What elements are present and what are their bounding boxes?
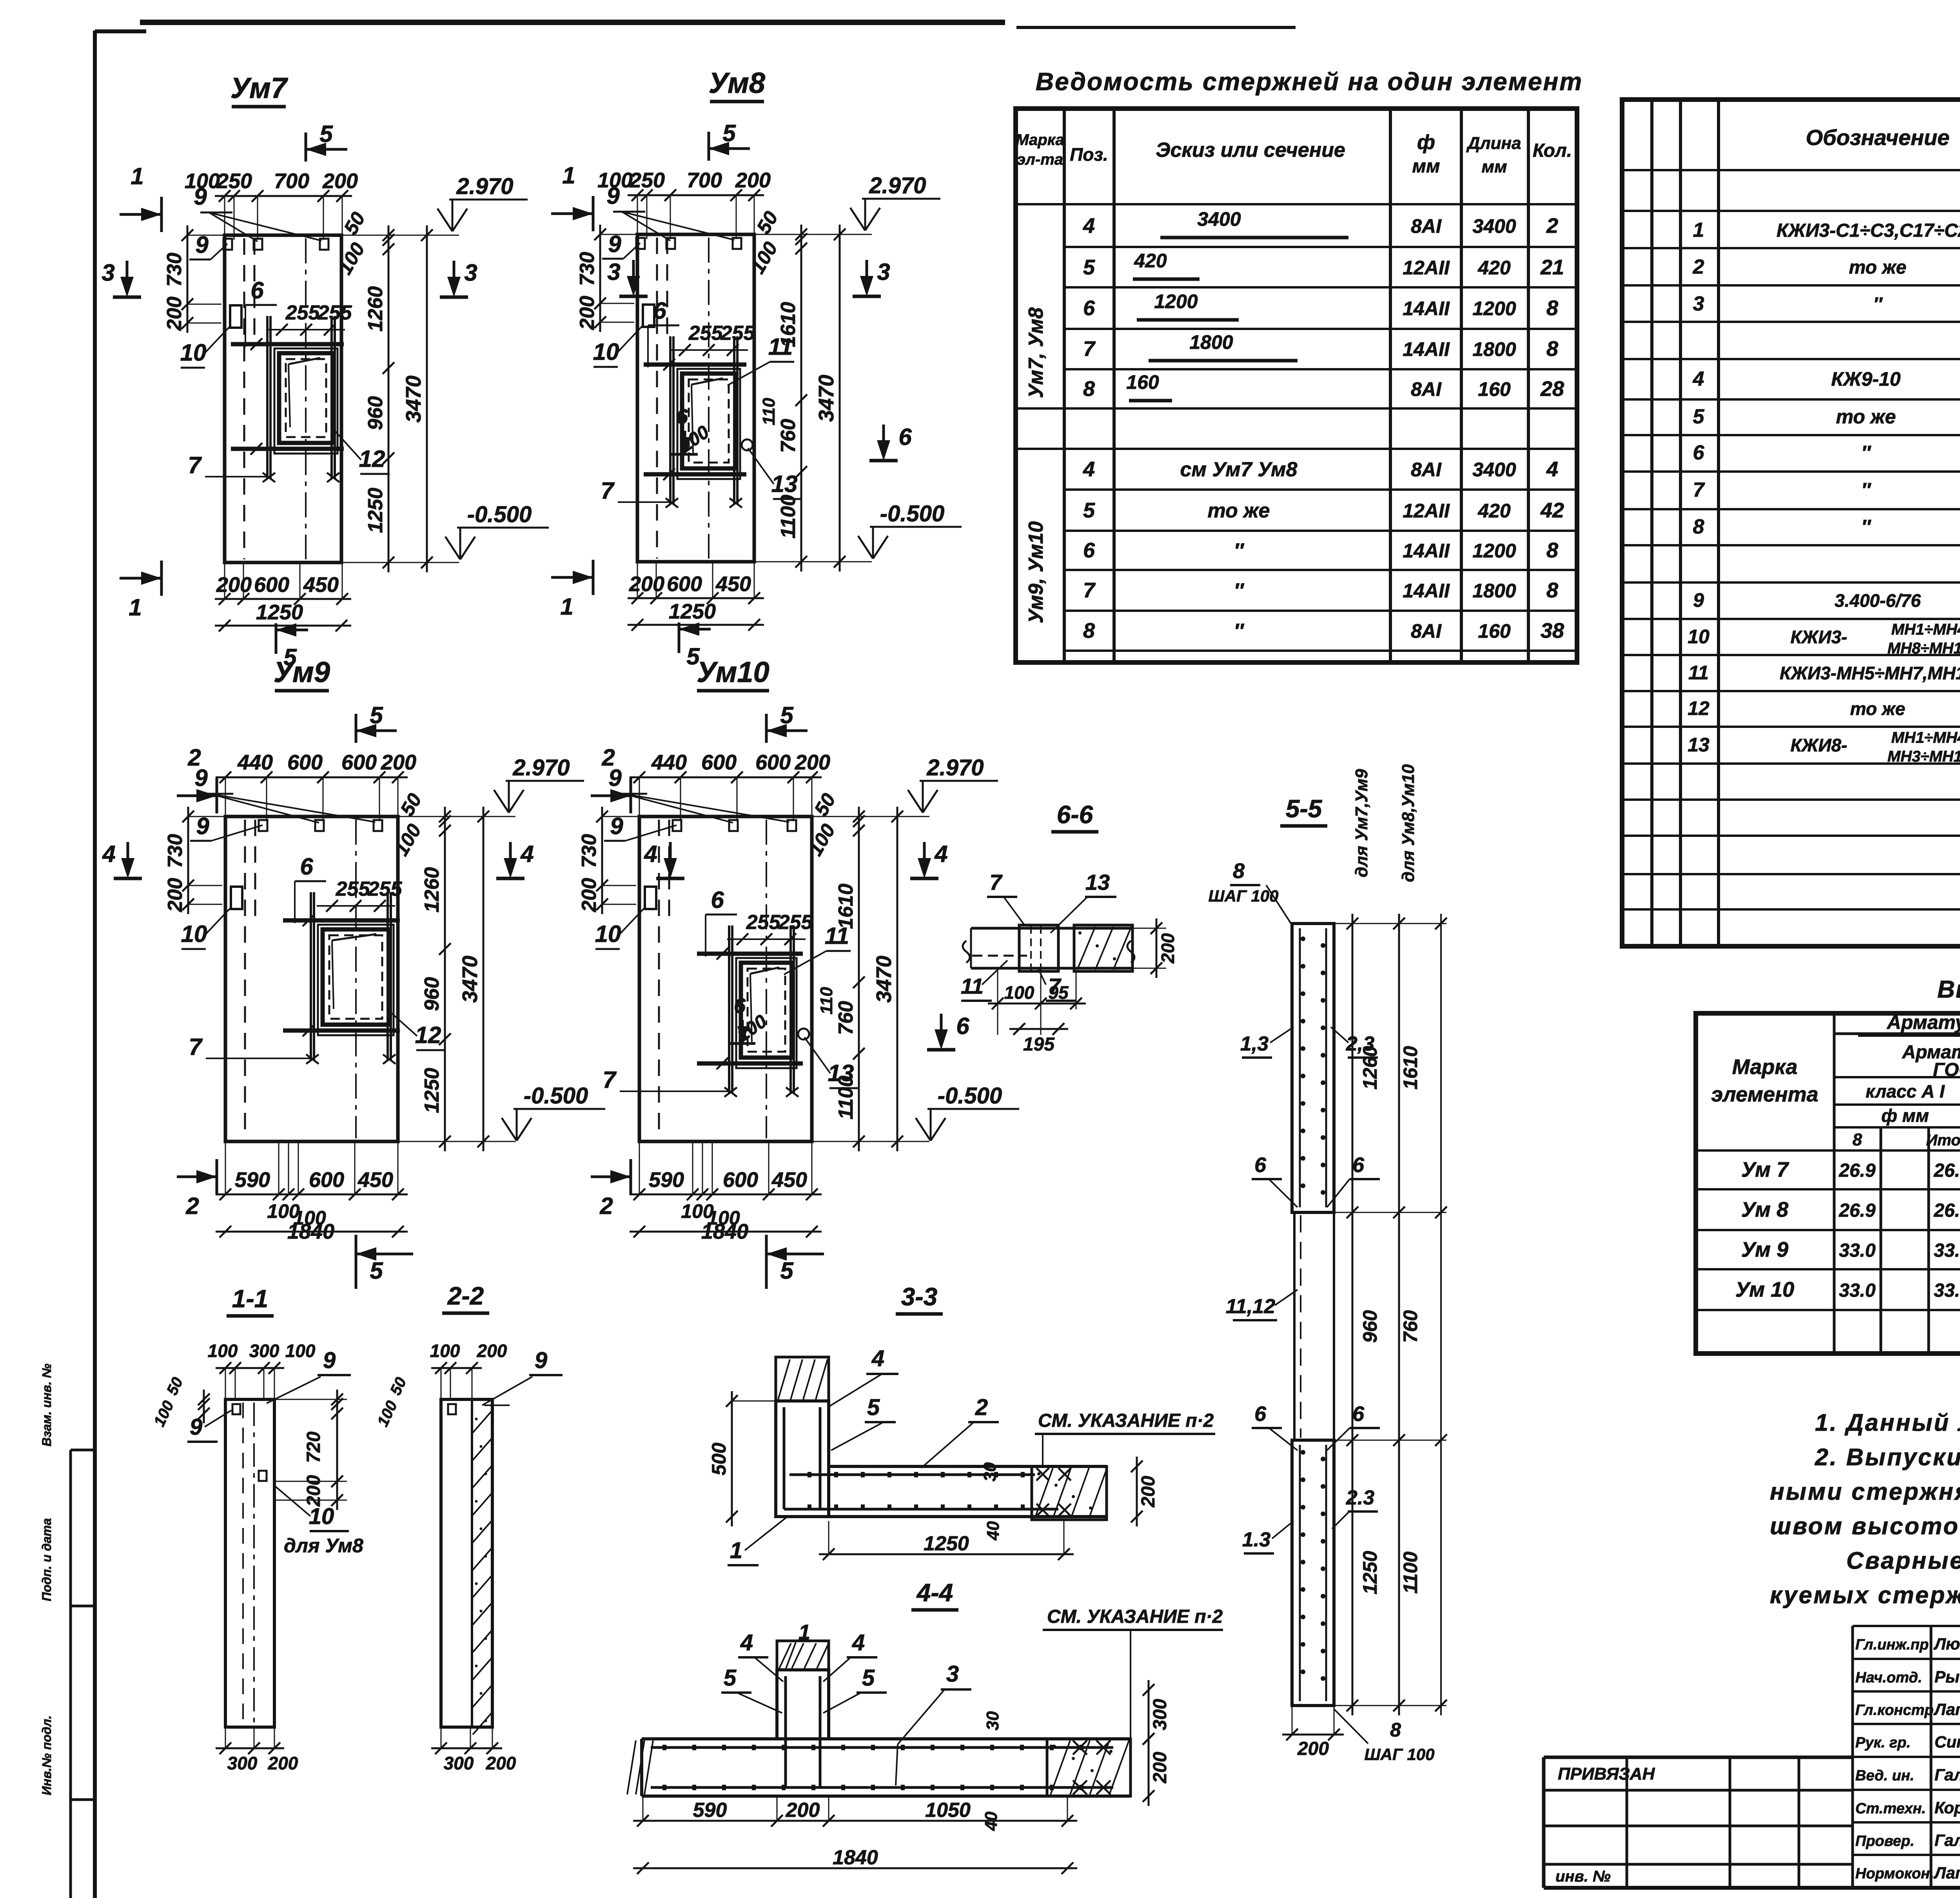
svg-text:3: 3 xyxy=(1693,292,1704,315)
section 3-3 dims xyxy=(731,1391,733,1526)
svg-text:600: 600 xyxy=(701,751,737,774)
svg-text:13: 13 xyxy=(1085,870,1110,895)
svg-text:то же: то же xyxy=(1208,499,1270,522)
svg-text:3: 3 xyxy=(607,259,620,285)
section 5-5 right dim chains xyxy=(1352,914,1354,1715)
panel Ум9 section mark 4 right xyxy=(509,842,512,873)
svg-text:мм: мм xyxy=(1412,156,1440,177)
section 6-6 squiggle cut marks xyxy=(963,941,970,963)
svg-text:30: 30 xyxy=(983,1711,1002,1730)
svg-text:6: 6 xyxy=(734,994,746,1018)
svg-text:7: 7 xyxy=(1083,579,1096,602)
section 1-1 bottom dims xyxy=(216,1747,284,1749)
svg-text:255: 255 xyxy=(746,911,781,934)
svg-text:1800: 1800 xyxy=(1189,331,1233,353)
panel Ум10 left section mark 2 top xyxy=(591,795,631,797)
svg-text:195: 195 xyxy=(1023,1034,1055,1055)
section 1-1 plates xyxy=(232,1404,240,1414)
svg-text:590: 590 xyxy=(235,1168,270,1192)
svg-text:1250: 1250 xyxy=(421,1068,443,1113)
svg-text:450: 450 xyxy=(715,572,751,596)
svg-text:2: 2 xyxy=(1546,214,1558,238)
svg-text:450: 450 xyxy=(303,573,339,597)
svg-text:13: 13 xyxy=(1688,734,1710,756)
svg-text:″: ″ xyxy=(1861,516,1871,538)
svg-text:для Ум7,Ум9: для Ум7,Ум9 xyxy=(1352,769,1371,877)
svg-text:8: 8 xyxy=(1853,1130,1862,1149)
panel Ум9 bottom left section mark xyxy=(177,1176,217,1178)
svg-text:10: 10 xyxy=(309,1504,334,1529)
svg-text:26.9: 26.9 xyxy=(1933,1200,1960,1221)
vedomost table grid xyxy=(1016,109,1577,662)
svg-text:МН8÷МН11: МН8÷МН11 xyxy=(1887,640,1960,657)
panel Ум7 left dimension chain xyxy=(187,225,189,333)
panel Ум9 top dimension chain xyxy=(216,777,408,778)
svg-text:300: 300 xyxy=(1150,1699,1171,1730)
svg-text:6: 6 xyxy=(250,277,264,303)
svg-text:элемента: элемента xyxy=(1711,1083,1818,1106)
svg-text:МН1÷МН4: МН1÷МН4 xyxy=(1891,729,1960,746)
svg-text:960: 960 xyxy=(1359,1310,1381,1343)
svg-text:42: 42 xyxy=(1540,499,1564,522)
svg-text:6: 6 xyxy=(1254,1402,1267,1426)
svg-text:6: 6 xyxy=(676,405,688,428)
svg-text:2. Выпуски арматуры из ст: 2. Выпуски арматуры из стеновых панелей … xyxy=(1815,1444,1960,1470)
svg-text:″: ″ xyxy=(1861,479,1871,501)
svg-text:Гл.констр: Гл.констр xyxy=(1855,1702,1934,1718)
svg-text:8: 8 xyxy=(1083,619,1095,642)
svg-text:то же: то же xyxy=(1836,406,1896,428)
svg-text:2: 2 xyxy=(185,1193,199,1219)
left margin boxes xyxy=(69,1450,72,1898)
page frame left border xyxy=(93,31,97,1898)
panel Ум10 rebar 7 horizontal bars xyxy=(697,952,803,956)
svg-text:255: 255 xyxy=(336,878,370,900)
svg-text:3.400-6/76: 3.400-6/76 xyxy=(1835,590,1921,611)
svg-text:8: 8 xyxy=(1546,296,1558,320)
svg-text:1: 1 xyxy=(129,594,142,621)
section 5-5 top segment xyxy=(1292,924,1334,1212)
svg-text:9: 9 xyxy=(535,1348,547,1373)
svg-text:110: 110 xyxy=(759,397,779,425)
panel Ум9 left dimension chain xyxy=(187,807,189,914)
svg-text:1050: 1050 xyxy=(925,1799,971,1822)
svg-text:Ум 7: Ум 7 xyxy=(1741,1158,1789,1181)
svg-text:5: 5 xyxy=(867,1395,880,1420)
section 4-4 slab xyxy=(642,1737,1131,1740)
svg-text:9: 9 xyxy=(323,1348,336,1373)
panel Ум7 bottom section mark 5 xyxy=(276,629,308,631)
section 5-5 bottom segment xyxy=(1292,1440,1334,1706)
panel Ум8 top dimension chain xyxy=(628,194,764,196)
section 1-1 column xyxy=(225,1399,274,1727)
panel Ум9 rebar 6 vertical bars xyxy=(310,892,312,1061)
svg-text:300: 300 xyxy=(444,1753,474,1773)
svg-text:Ведомость стержней на один: Ведомость стержней на один элемент xyxy=(1036,67,1583,96)
panel Ум8 bottom section mark 5 xyxy=(679,628,711,631)
panel Ум7 bottom dimension chains xyxy=(215,598,351,600)
panel Ум9 right dimension chains xyxy=(444,807,446,1151)
svg-text:для Ум8,Ум10: для Ум8,Ум10 xyxy=(1399,764,1418,882)
svg-text:4: 4 xyxy=(520,841,534,867)
svg-text:Марка: Марка xyxy=(1016,131,1064,149)
svg-text:5: 5 xyxy=(1083,256,1095,279)
svg-text:600: 600 xyxy=(755,751,791,774)
svg-text:7: 7 xyxy=(1693,479,1705,501)
svg-text:6: 6 xyxy=(653,298,666,324)
svg-text:3400: 3400 xyxy=(1472,215,1516,237)
svg-text:КЖИ3-: КЖИ3- xyxy=(1791,627,1847,647)
svg-text:10: 10 xyxy=(1688,626,1710,648)
svg-text:КЖИ8-: КЖИ8- xyxy=(1791,735,1847,755)
svg-text:2: 2 xyxy=(601,744,615,771)
svg-text:Ум 8: Ум 8 xyxy=(1741,1198,1788,1221)
svg-text:200: 200 xyxy=(629,572,664,596)
svg-text:Синельникова: Синельникова xyxy=(1935,1733,1960,1751)
svg-text:2.970: 2.970 xyxy=(512,755,570,780)
svg-text:28: 28 xyxy=(1540,377,1564,401)
svg-text:Любавин: Любавин xyxy=(1933,1635,1960,1653)
svg-text:12АII: 12АII xyxy=(1403,500,1450,522)
svg-text:1200: 1200 xyxy=(1472,298,1516,319)
svg-text:600: 600 xyxy=(309,1168,344,1192)
svg-text:ШАГ 100: ШАГ 100 xyxy=(1365,1745,1435,1764)
svg-text:590: 590 xyxy=(649,1168,684,1192)
svg-text:255: 255 xyxy=(368,878,403,900)
svg-text:Вед. ин.: Вед. ин. xyxy=(1855,1767,1914,1784)
svg-text:Нормокон.: Нормокон. xyxy=(1855,1865,1934,1882)
section 4-4 stem xyxy=(777,1670,829,1739)
svg-text:2: 2 xyxy=(599,1193,613,1219)
svg-text:2.970: 2.970 xyxy=(456,174,513,199)
panel Ум10 right dimension chains xyxy=(858,807,860,1151)
svg-text:255: 255 xyxy=(285,301,320,324)
svg-text:14АII: 14АII xyxy=(1403,540,1450,562)
svg-text:1250: 1250 xyxy=(256,601,303,624)
svg-text:730: 730 xyxy=(578,834,601,868)
title block left extension privyazan xyxy=(1544,1756,1853,1759)
svg-text:11: 11 xyxy=(1688,662,1709,684)
panel Ум8 section mark 3 right xyxy=(866,260,868,291)
svg-text:-0.500: -0.500 xyxy=(524,1083,588,1109)
panel Ум9 embedded plates 9 top xyxy=(259,820,267,831)
svg-text:ГОСТ 5781-75: ГОСТ 5781-75 xyxy=(1933,1060,1960,1080)
vyborka table outline xyxy=(1696,1013,1960,1354)
svg-text:мм: мм xyxy=(1481,157,1507,176)
svg-text:100: 100 xyxy=(1004,982,1034,1003)
svg-text:8АI: 8АI xyxy=(1411,459,1442,481)
panel Ум7 section mark 3 left xyxy=(126,261,129,292)
svg-text:12: 12 xyxy=(415,1022,441,1048)
svg-text:эл-та: эл-та xyxy=(1017,151,1063,168)
svg-text:Ум7, Ум8: Ум7, Ум8 xyxy=(1025,307,1047,398)
svg-text:200: 200 xyxy=(477,1341,507,1361)
svg-text:1: 1 xyxy=(1693,219,1704,241)
svg-text:7: 7 xyxy=(188,452,202,478)
svg-text:26.9: 26.9 xyxy=(1838,1160,1876,1181)
svg-text:Ум7: Ум7 xyxy=(230,72,289,104)
svg-text:Гальперина: Гальперина xyxy=(1935,1831,1960,1849)
svg-text:1: 1 xyxy=(131,163,143,189)
svg-text:5: 5 xyxy=(370,1257,383,1284)
panel Ум10 outline xyxy=(639,817,812,1141)
svg-text:1: 1 xyxy=(560,593,573,620)
vyborka table columns xyxy=(1833,1013,1836,1354)
svg-text:6: 6 xyxy=(1352,1153,1365,1177)
svg-text:200: 200 xyxy=(735,169,771,192)
svg-text:3470: 3470 xyxy=(402,376,425,423)
svg-text:700: 700 xyxy=(274,169,309,193)
svg-text:Ум9: Ум9 xyxy=(274,656,330,688)
section 2-2 insulation hatch xyxy=(473,1411,492,1433)
svg-text:5: 5 xyxy=(1693,405,1705,428)
svg-text:3470: 3470 xyxy=(872,956,896,1003)
svg-text:33.0: 33.0 xyxy=(1839,1280,1876,1301)
panel Ум7 dashed lines xyxy=(243,238,245,559)
title block signature table xyxy=(1853,1625,1960,1627)
svg-text:МН3÷МН11: МН3÷МН11 xyxy=(1887,748,1960,765)
svg-text:Ум9, Ум10: Ум9, Ум10 xyxy=(1025,521,1047,624)
panel Ум8 bottom dimension chains xyxy=(628,597,764,599)
section 2-2 column xyxy=(441,1399,492,1727)
svg-text:1250: 1250 xyxy=(924,1532,969,1555)
panel Ум8 outline xyxy=(637,234,754,562)
section 2-2 bottom dims xyxy=(431,1747,502,1749)
svg-text:255: 255 xyxy=(720,322,755,345)
svg-text:6: 6 xyxy=(300,853,313,880)
svg-text:6: 6 xyxy=(956,1013,969,1039)
panel Ум8 section mark 6 right xyxy=(882,425,885,456)
svg-text:Инв.№ подл.: Инв.№ подл. xyxy=(40,1715,54,1795)
svg-text:-0.500: -0.500 xyxy=(880,501,944,526)
svg-text:4: 4 xyxy=(102,841,115,867)
svg-text:200: 200 xyxy=(1150,1752,1171,1784)
panel Ум8 rebar 6 vertical bars xyxy=(669,336,671,504)
svg-text:4: 4 xyxy=(1546,457,1558,481)
svg-text:1,3: 1,3 xyxy=(1240,1032,1269,1055)
svg-text:33.0: 33.0 xyxy=(1934,1240,1960,1261)
panel Ум7 top dimension chain xyxy=(215,195,352,197)
svg-text:2-2: 2-2 xyxy=(447,1282,484,1310)
page frame bottom line under title block xyxy=(1544,1886,1960,1890)
svg-text:Корышева: Корышева xyxy=(1935,1798,1960,1817)
svg-text:730: 730 xyxy=(576,252,599,286)
svg-text:11,12: 11,12 xyxy=(1226,1295,1275,1318)
section 3-3 rebar xyxy=(783,1407,786,1509)
panel Ум9 rebar 7 horizontal bars xyxy=(283,918,400,923)
svg-text:2.3: 2.3 xyxy=(1346,1486,1374,1509)
panel Ум8 window opening xyxy=(677,369,740,479)
svg-text:200: 200 xyxy=(486,1753,516,1773)
svg-text:8: 8 xyxy=(1693,515,1704,538)
svg-text:7: 7 xyxy=(601,477,615,504)
svg-text:Сварные швы должны обесп: Сварные швы должны обеспечивать равнопро… xyxy=(1846,1547,1960,1574)
panel Ум9 bottom dimension chains xyxy=(216,1194,408,1196)
panel Ум9 bottom section mark 5 xyxy=(356,1253,413,1256)
svg-text:″: ″ xyxy=(1234,620,1245,642)
svg-text:класс А I: класс А I xyxy=(1866,1081,1945,1101)
svg-text:1250: 1250 xyxy=(1359,1551,1381,1594)
svg-text:200: 200 xyxy=(795,751,830,774)
svg-text:700: 700 xyxy=(687,169,722,192)
svg-text:6: 6 xyxy=(1352,1402,1365,1426)
svg-text:Подп. и дата: Подп. и дата xyxy=(40,1518,54,1601)
section 5-5 middle segment xyxy=(1294,1212,1334,1440)
svg-text:200: 200 xyxy=(578,878,601,913)
panel Ум8 left dimension chain xyxy=(599,225,601,332)
svg-text:160: 160 xyxy=(1126,371,1159,393)
svg-text:200: 200 xyxy=(1297,1738,1329,1759)
svg-text:10: 10 xyxy=(595,921,621,947)
svg-text:1250: 1250 xyxy=(669,600,716,623)
svg-text:5: 5 xyxy=(862,1665,875,1691)
svg-text:200: 200 xyxy=(303,1475,324,1507)
svg-text:Ум 9: Ум 9 xyxy=(1741,1238,1788,1261)
svg-text:Ум10: Ум10 xyxy=(697,656,769,688)
svg-text:1610: 1610 xyxy=(835,884,857,929)
svg-text:960: 960 xyxy=(364,396,387,430)
panel Ум9 left section mark 2 top xyxy=(177,795,217,797)
svg-text:4: 4 xyxy=(871,1346,884,1371)
svg-text:7: 7 xyxy=(189,1034,203,1060)
svg-text:инв. №: инв. № xyxy=(1555,1868,1611,1885)
svg-text:6-6: 6-6 xyxy=(1057,800,1093,829)
svg-text:40: 40 xyxy=(982,1811,1001,1831)
svg-text:Нач.отд.: Нач.отд. xyxy=(1855,1669,1922,1686)
panel Ум7 outline xyxy=(225,235,341,563)
svg-text:300: 300 xyxy=(227,1753,258,1773)
svg-text:8: 8 xyxy=(1083,377,1095,401)
panel Ум7 rebar 6 vertical bars xyxy=(266,316,269,479)
svg-text:200: 200 xyxy=(268,1753,298,1773)
svg-text:38: 38 xyxy=(1541,619,1564,642)
svg-text:4: 4 xyxy=(852,1630,865,1655)
svg-text:1200: 1200 xyxy=(1472,540,1516,562)
svg-text:200: 200 xyxy=(216,573,252,597)
svg-text:КЖИ3-С1÷С3,С17÷С24: КЖИ3-С1÷С3,С17÷С24 xyxy=(1777,220,1960,241)
svg-text:3: 3 xyxy=(946,1661,959,1687)
svg-text:8АI: 8АI xyxy=(1411,378,1442,400)
svg-text:6: 6 xyxy=(1083,539,1095,562)
svg-text:100: 100 xyxy=(285,1341,316,1361)
svg-text:Итого: Итого xyxy=(1926,1132,1960,1149)
svg-text:Провер.: Провер. xyxy=(1855,1833,1915,1849)
svg-text:760: 760 xyxy=(835,1001,857,1035)
section 4-4 dims xyxy=(633,1820,1077,1822)
section 4-4 stem hatched cap xyxy=(777,1641,829,1670)
section 4-4 right end block xyxy=(1047,1739,1131,1796)
svg-text:8: 8 xyxy=(1390,1719,1401,1741)
svg-text:1.3: 1.3 xyxy=(1242,1528,1270,1551)
svg-text:1200: 1200 xyxy=(1154,290,1198,312)
panel Ум7 top section mark 5 xyxy=(305,132,307,161)
svg-text:2: 2 xyxy=(975,1395,988,1420)
panel Ум8 embedded plate 10 left xyxy=(643,305,654,327)
svg-text:12АII: 12АII xyxy=(1403,257,1450,279)
svg-text:1260: 1260 xyxy=(364,286,387,332)
panel Ум9 outline xyxy=(225,817,398,1141)
panel Ум10 section mark 6 right xyxy=(940,1014,943,1045)
panel Ум7 rebar 7 horizontal bars xyxy=(231,342,344,347)
panel Ум8 rebar 7 horizontal bars xyxy=(644,363,746,367)
svg-text:1840: 1840 xyxy=(287,1220,334,1243)
section 6-6 right concrete xyxy=(1074,925,1132,971)
svg-text:3: 3 xyxy=(102,259,114,286)
svg-text:300: 300 xyxy=(249,1341,279,1361)
svg-text:14АII: 14АII xyxy=(1403,298,1450,319)
svg-text:7: 7 xyxy=(989,870,1003,895)
svg-text:5: 5 xyxy=(780,702,794,728)
svg-text:600: 600 xyxy=(723,1168,758,1192)
svg-text:Марка: Марка xyxy=(1732,1055,1798,1079)
svg-text:Ум8: Ум8 xyxy=(709,67,766,99)
svg-text:11: 11 xyxy=(961,974,984,998)
svg-text:4-4: 4-4 xyxy=(916,1579,953,1607)
svg-text:100: 100 xyxy=(597,169,633,192)
panel Ум7 embedded plates 9 top xyxy=(223,239,232,250)
svg-text:200: 200 xyxy=(322,169,358,193)
vyborka table rows xyxy=(1834,1032,1960,1035)
svg-text:255: 255 xyxy=(318,301,352,324)
svg-text:10: 10 xyxy=(593,339,619,365)
svg-text:8: 8 xyxy=(1546,539,1558,562)
panel Ум10 window opening xyxy=(736,958,797,1068)
panel Ум9 dashed lines xyxy=(244,820,246,1138)
svg-text:швом высотой hш = 6 мм ,: швом высотой hш = 6 мм , длиной ℓш = 100… xyxy=(1770,1513,1960,1539)
section 3-3 rebar crosses xyxy=(1036,1468,1049,1481)
svg-text:1800: 1800 xyxy=(1472,338,1516,360)
svg-text:-0.500: -0.500 xyxy=(938,1083,1002,1109)
svg-text:960: 960 xyxy=(421,977,443,1011)
svg-text:720: 720 xyxy=(303,1432,324,1463)
section 2-2 plate xyxy=(448,1404,456,1414)
section 1-1 right dims xyxy=(336,1390,338,1510)
svg-text:100: 100 xyxy=(430,1341,460,1361)
svg-text:95: 95 xyxy=(1048,982,1069,1003)
svg-text:450: 450 xyxy=(771,1168,807,1192)
svg-text:200: 200 xyxy=(786,1799,820,1822)
svg-text:1100: 1100 xyxy=(777,495,800,539)
section 3-3 slab xyxy=(829,1465,1107,1468)
svg-text:255: 255 xyxy=(778,911,813,934)
svg-text:420: 420 xyxy=(1477,257,1511,279)
panel Ум9 window opening xyxy=(318,925,394,1035)
svg-text:5: 5 xyxy=(780,1257,794,1284)
section 5-5 bottom dim xyxy=(1282,1734,1344,1736)
svg-text:Обозначение: Обозначение xyxy=(1806,125,1950,150)
panel Ум10 bottom dimension chains xyxy=(630,1194,822,1196)
svg-text:1260: 1260 xyxy=(421,867,443,913)
svg-text:1800: 1800 xyxy=(1472,580,1516,602)
svg-text:″: ″ xyxy=(1234,579,1245,602)
svg-text:590: 590 xyxy=(693,1799,727,1822)
svg-text:Кол.: Кол. xyxy=(1533,140,1572,161)
svg-text:3: 3 xyxy=(877,259,890,285)
svg-text:8: 8 xyxy=(1233,859,1245,883)
svg-text:9: 9 xyxy=(1693,589,1704,611)
svg-text:Поз.: Поз. xyxy=(1070,144,1108,165)
svg-text:5: 5 xyxy=(370,702,383,728)
svg-text:420: 420 xyxy=(1477,500,1511,522)
svg-text:для Ум8: для Ум8 xyxy=(284,1535,363,1557)
svg-text:Эскиз или сечение: Эскиз или сечение xyxy=(1156,139,1345,161)
section 1-1 dims xyxy=(216,1367,284,1369)
svg-text:200: 200 xyxy=(1138,1476,1159,1508)
svg-text:1: 1 xyxy=(730,1538,742,1563)
svg-text:″: ″ xyxy=(1234,539,1245,562)
section 4-4 rebar xyxy=(784,1676,787,1787)
svg-text:5-5: 5-5 xyxy=(1286,795,1323,823)
